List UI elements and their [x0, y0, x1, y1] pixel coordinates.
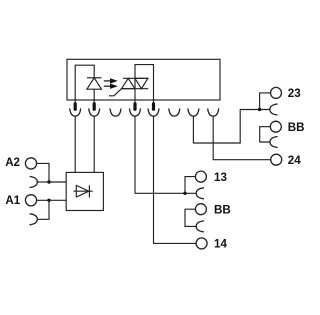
svg-text:24: 24: [288, 154, 301, 167]
svg-text:A2: A2: [5, 156, 20, 169]
svg-text:BB: BB: [288, 121, 305, 134]
svg-text:BB: BB: [214, 203, 231, 216]
svg-text:13: 13: [214, 171, 227, 184]
svg-text:14: 14: [214, 238, 227, 251]
svg-text:23: 23: [288, 87, 301, 100]
svg-text:A1: A1: [5, 194, 20, 207]
